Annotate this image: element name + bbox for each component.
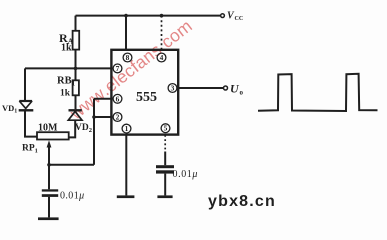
pin 2 [113,113,122,122]
wire: pin 5 drop solid part [164,152,166,166]
pin 7 [113,64,122,73]
wire: VD1 to RP1 left [25,110,37,136]
junction dot pin2 branch [92,115,96,119]
svg-text:10M: 10M [38,123,58,134]
wire: pin 2 horizontal [94,116,111,118]
ground (pin 5) [157,195,172,198]
capacitor 0.01u (pin 5) plates [156,165,174,173]
svg-text:555: 555 [136,90,157,105]
wire: pin 3 output [178,87,223,89]
ground (left) [38,217,59,220]
junction dot rail/pin4 [160,14,164,18]
ground (pin 1) [117,195,135,198]
pin 1 [122,124,131,133]
svg-text:7: 7 [116,64,120,73]
svg-text:ybx8.cn: ybx8.cn [208,193,276,210]
svg-text:6: 6 [116,94,120,103]
svg-text:1k: 1k [60,89,71,99]
diode VD1 (cathode down) [19,101,34,110]
wire: node to left capacitor [48,165,50,190]
svg-text:3: 3 [171,84,175,93]
wire: right capacitor to ground [164,174,166,196]
wire: VD2 to RP1 right [69,121,76,138]
IC 555 body [111,50,178,135]
wire: pin 8 drop [125,16,127,50]
svg-text:0.01μ: 0.01μ [60,191,85,202]
pin 4 [157,53,166,62]
pin 3 [168,84,177,93]
wire: vertical to pins 2 and 6 [93,99,95,165]
resistor RB body [73,80,79,95]
svg-text:U: U [230,82,240,96]
wire: RB bottom to VD2 [75,95,77,109]
watermark www.elecfans.com (main diagonal) [68,19,192,120]
wire: rail corner down to RA [75,16,77,31]
svg-text:o: o [240,89,244,97]
terminal Uo [224,86,228,90]
wire: pin 7 horizontal [25,67,111,69]
svg-text:CC: CC [235,16,244,22]
wire: wiper down [48,147,50,165]
wire: pin 5 drop dotted part [164,135,166,152]
wire: pin 6 horizontal [94,98,111,100]
wire: left vertical to VD1 [24,68,26,101]
svg-text:2: 2 [116,113,120,122]
wire: RB top [75,68,77,80]
diode VD2 (cathode up) [68,110,82,120]
resistor RA body [73,31,80,50]
capacitor C (left) plates [42,189,58,197]
svg-text:8: 8 [126,53,130,62]
wire: Vcc top rail [76,15,221,17]
pin 6 [113,94,122,103]
svg-text:0.01μ: 0.01μ [173,169,199,180]
svg-text:1k: 1k [61,43,72,54]
wire: pin 1 drop to ground [125,135,127,196]
svg-text:5: 5 [164,124,168,133]
wire: left capacitor to ground [48,197,50,218]
potentiometer RP1 body [37,132,69,139]
junction dot RA/RB/pin7 [74,67,78,71]
pin 8 [123,53,132,62]
potentiometer wiper arrow [47,140,52,147]
junction dot wiper node [47,163,51,167]
wire: pin 4 drop (dotted) [161,16,163,50]
pin 5 [161,124,170,133]
waveform Uo square wave [258,74,378,111]
terminal Vcc [221,14,225,18]
wire: RA bottom to pin7 node [75,50,77,69]
svg-text:1: 1 [125,124,129,133]
svg-text:4: 4 [160,53,164,62]
junction dot rail/pin8 [124,14,128,18]
wire: wiper node to pin2/6 vertical [49,164,94,166]
